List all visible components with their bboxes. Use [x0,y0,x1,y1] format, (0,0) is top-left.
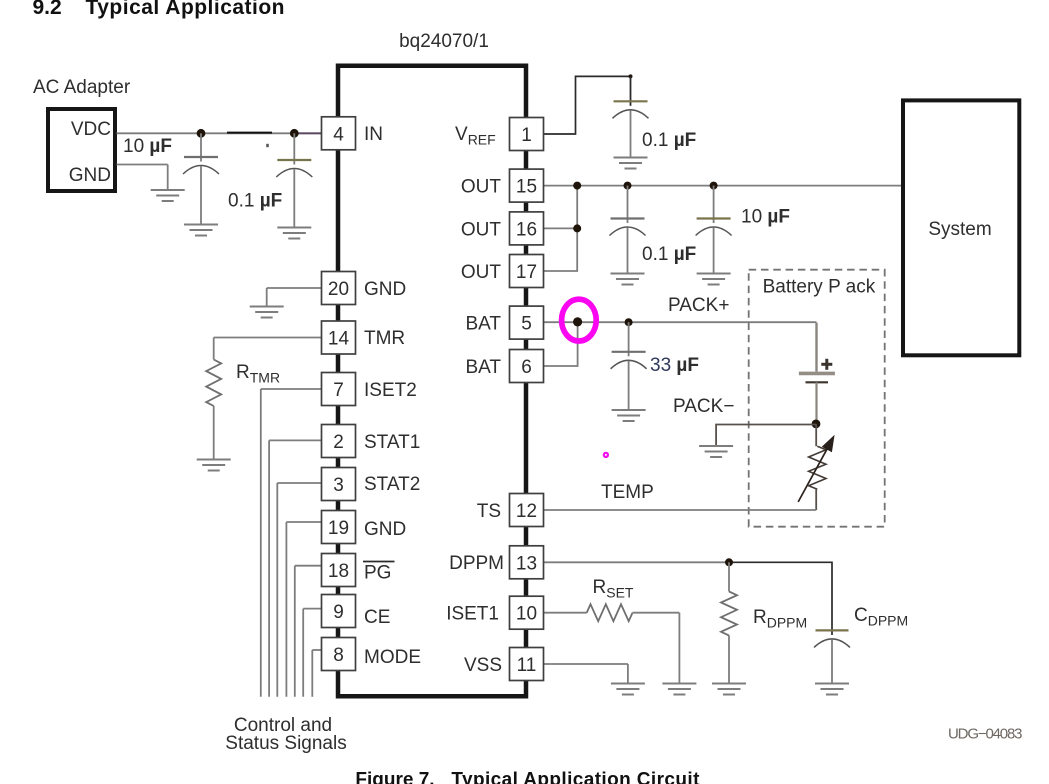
svg-text:Status Signals: Status Signals [225,733,346,754]
svg-text:14: 14 [328,329,350,350]
svg-text:IN: IN [364,124,383,145]
svg-text:15: 15 [516,177,537,198]
svg-text:BAT: BAT [465,314,501,335]
svg-text:System: System [928,219,991,240]
svg-text:1: 1 [521,125,532,146]
svg-text:PACK−: PACK− [673,396,734,417]
svg-text:6: 6 [521,357,532,378]
svg-text:10 µF: 10 µF [741,207,790,228]
svg-text:BAT: BAT [465,357,501,378]
svg-text:TMR: TMR [364,328,405,349]
svg-text:17: 17 [516,262,537,283]
svg-text:TEMP: TEMP [601,482,654,503]
svg-text:7: 7 [333,380,344,401]
svg-text:Typical Application: Typical Application [86,0,285,19]
svg-text:CE: CE [364,607,390,628]
svg-text:Battery P ack: Battery P ack [763,277,876,298]
svg-text:16: 16 [516,219,537,240]
svg-text:2: 2 [333,432,344,453]
svg-text:PG: PG [364,563,391,584]
svg-text:8: 8 [333,645,344,666]
svg-text:13: 13 [516,553,537,574]
svg-text:12: 12 [516,501,537,522]
svg-text:0.1 µF: 0.1 µF [642,244,696,265]
svg-text:20: 20 [328,279,349,300]
svg-text:GND: GND [364,279,406,300]
svg-text:9.2: 9.2 [33,0,62,19]
svg-text:0.1 µF: 0.1 µF [642,130,696,151]
svg-text:GND: GND [364,519,406,540]
svg-text:10: 10 [516,604,537,625]
svg-text:ISET1: ISET1 [446,604,499,625]
svg-text:bq24070/1: bq24070/1 [399,31,489,52]
svg-text:STAT2: STAT2 [364,474,420,495]
svg-text:Figure 7.: Figure 7. [355,770,434,784]
svg-text:5: 5 [521,314,532,335]
svg-text:Typical Application Circuit: Typical Application Circuit [451,770,700,784]
svg-text:9: 9 [333,602,344,623]
svg-text:0.1 µF: 0.1 µF [228,191,282,212]
svg-text:4: 4 [333,124,344,145]
svg-text:19: 19 [328,518,349,539]
svg-text:OUT: OUT [461,262,502,283]
svg-text:AC Adapter: AC Adapter [33,77,131,98]
svg-text:11: 11 [517,655,537,676]
svg-text:VSS: VSS [464,655,502,676]
svg-text:OUT: OUT [461,219,502,240]
svg-text:OUT: OUT [461,177,502,198]
svg-text:33 µF: 33 µF [650,355,699,376]
svg-text:UDG−04083: UDG−04083 [948,726,1023,743]
svg-text:PACK+: PACK+ [668,295,729,316]
svg-text:10 µF: 10 µF [123,136,172,157]
svg-text:DPPM: DPPM [449,553,504,574]
svg-text:VDC: VDC [71,119,111,140]
svg-text:18: 18 [328,561,349,582]
svg-text:ISET2: ISET2 [364,380,417,401]
svg-text:3: 3 [333,475,344,496]
svg-text:STAT1: STAT1 [364,432,420,453]
svg-text:GND: GND [69,165,111,186]
svg-text:TS: TS [477,501,501,522]
svg-text:MODE: MODE [364,647,421,668]
